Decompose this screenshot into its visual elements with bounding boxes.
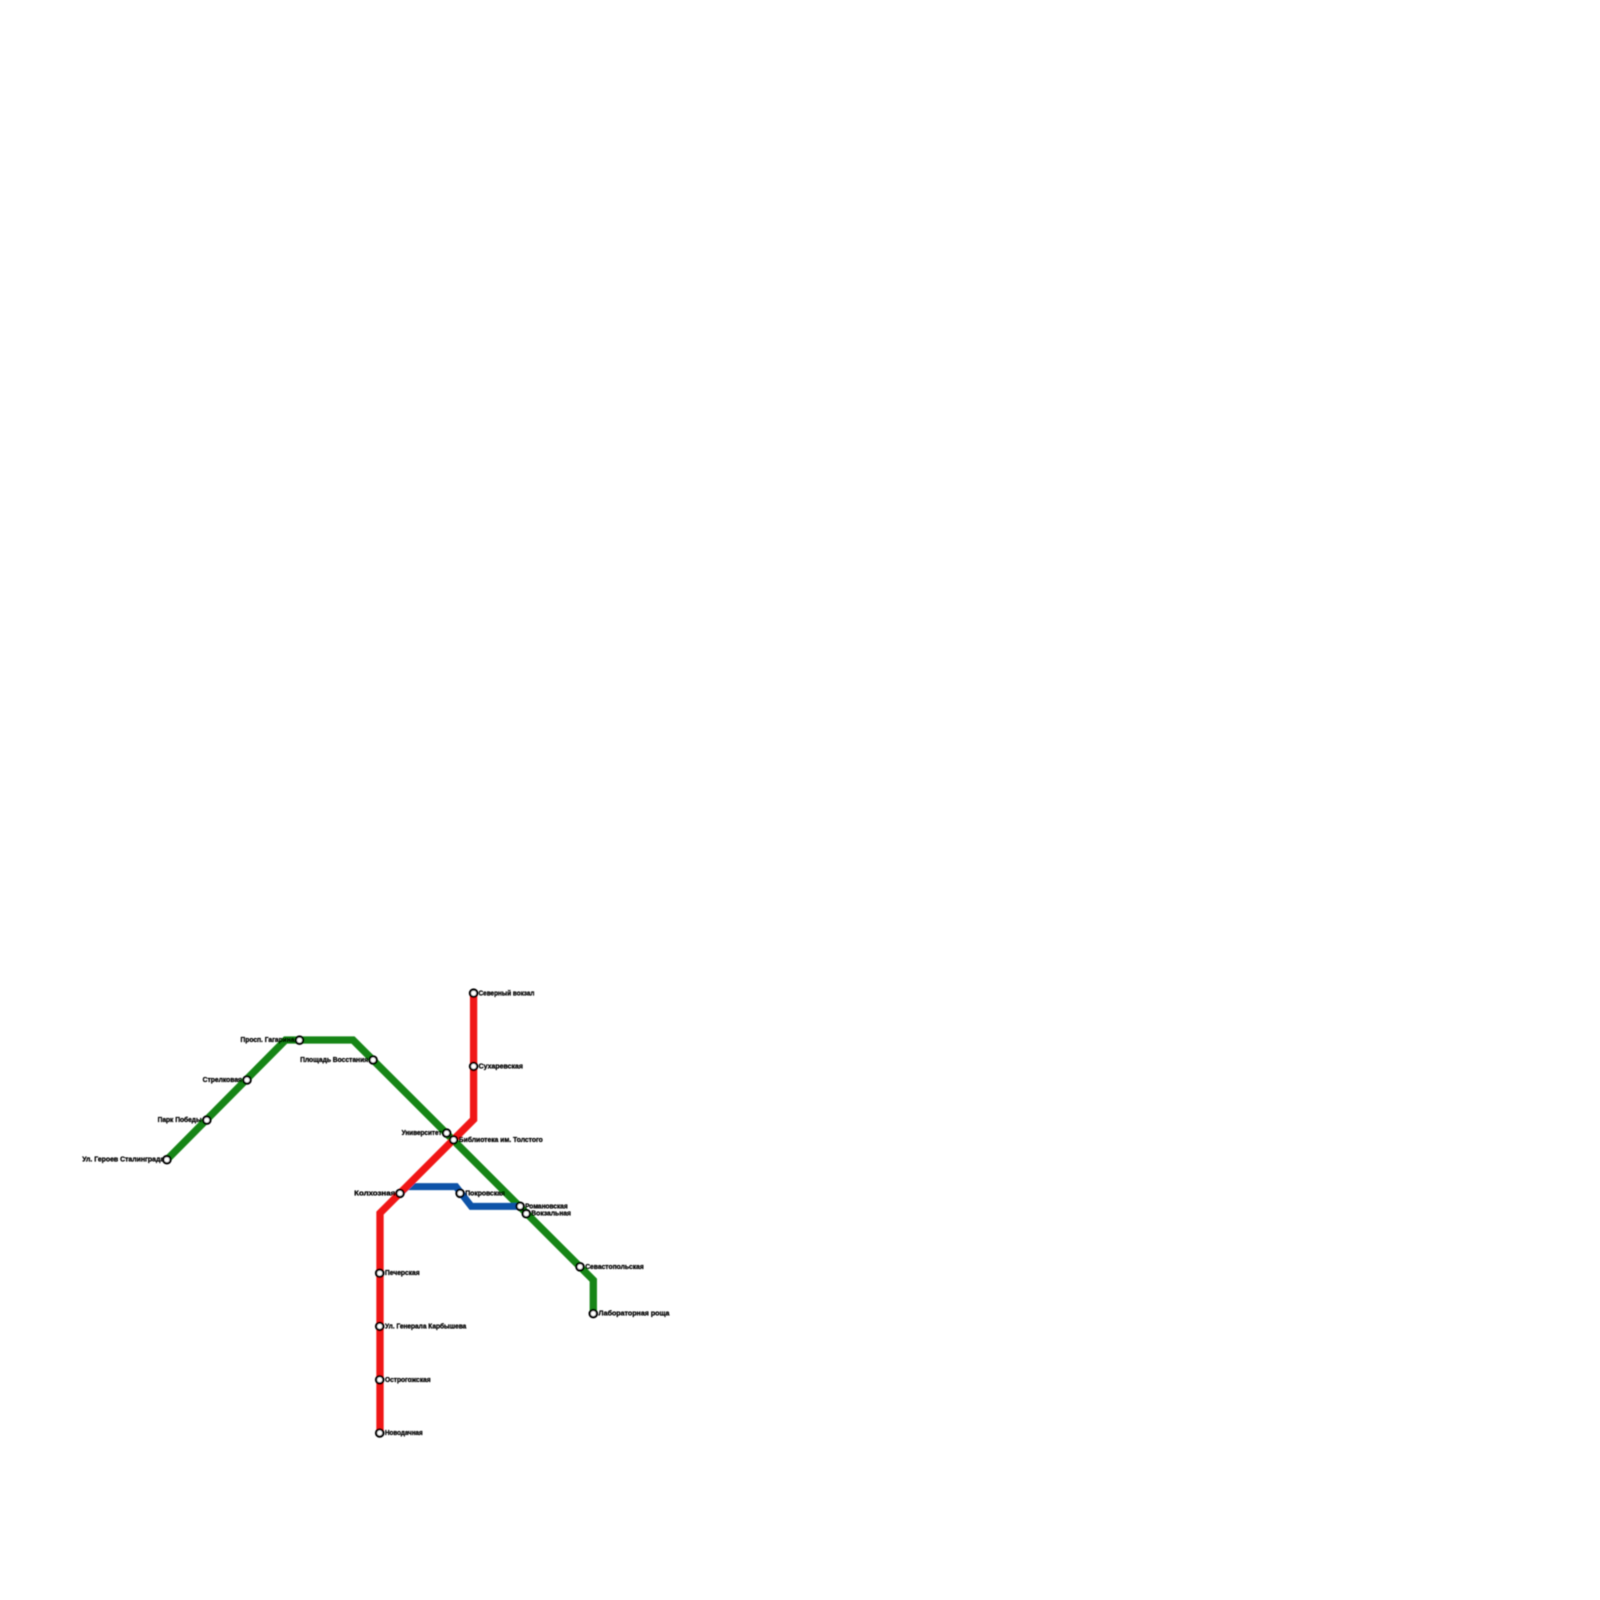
station dot: Ул. Генерала Карбышева (red line) bbox=[376, 1323, 383, 1330]
station dot: Печерская (red line) bbox=[376, 1270, 383, 1277]
svg-text:Сухаревская: Сухаревская bbox=[479, 1061, 523, 1070]
svg-text:Ул. Генерала Карбышева: Ул. Генерала Карбышева bbox=[385, 1321, 467, 1330]
station dot: Лабораторная роща (green line terminus) bbox=[590, 1310, 597, 1317]
svg-text:Библиотека им. Толстого: Библиотека им. Толстого bbox=[459, 1135, 544, 1144]
svg-text:Площадь Восстания: Площадь Восстания bbox=[300, 1055, 368, 1064]
blue metro line 2: Колхозная - Романовская bbox=[400, 1187, 520, 1207]
svg-text:Просп. Гагарина: Просп. Гагарина bbox=[241, 1035, 296, 1044]
station dot: Севастопольская (green line) bbox=[576, 1263, 583, 1270]
station dot: Сухаревская (red line) bbox=[470, 1063, 477, 1070]
station dot: Вокзальная (green line, transfer) bbox=[523, 1210, 530, 1217]
svg-text:Колхозная: Колхозная bbox=[354, 1188, 395, 1197]
svg-text:Северный вокзал: Северный вокзал bbox=[479, 989, 535, 998]
station dot: Острогожская (red line) bbox=[376, 1376, 383, 1383]
svg-text:Вокзальная: Вокзальная bbox=[531, 1209, 571, 1218]
svg-text:Покровская: Покровская bbox=[465, 1188, 505, 1197]
svg-text:Лабораторная роща: Лабораторная роща bbox=[599, 1309, 671, 1318]
station dot: Стрелковая (green line) bbox=[243, 1076, 250, 1083]
green metro line 3: Ул. Героев Сталинграда - Лабораторная роща bbox=[167, 1040, 593, 1314]
red metro line 1: Северный вокзал - Новодачная bbox=[380, 993, 474, 1433]
svg-text:Севастопольская: Севастопольская bbox=[585, 1262, 644, 1271]
station dot: Колхозная (red/blue transfer) bbox=[396, 1190, 403, 1197]
station dot: Ул. Героев Сталинграда (green line terminus) bbox=[163, 1156, 170, 1163]
svg-text:Стрелковая: Стрелковая bbox=[203, 1075, 242, 1084]
station dot: Университет (green line, transfer) bbox=[443, 1129, 450, 1136]
svg-text:Университет: Университет bbox=[402, 1128, 442, 1137]
svg-text:Парк Победы: Парк Победы bbox=[158, 1115, 202, 1124]
station dot: Парк Победы (green line) bbox=[203, 1116, 210, 1123]
svg-text:Ул. Героев Сталинграда: Ул. Героев Сталинграда bbox=[82, 1155, 165, 1164]
station dot: Покровская (blue line) bbox=[456, 1190, 463, 1197]
station dot: Романовская (blue line terminus, transfer) bbox=[516, 1203, 523, 1210]
svg-text:Новодачная: Новодачная bbox=[385, 1428, 423, 1437]
station dot: Новодачная (red line terminus) bbox=[376, 1429, 383, 1436]
station dot: Просп. Гагарина (green line) bbox=[296, 1037, 303, 1044]
station dot: Библиотека им. Толстого (red line, transfer) bbox=[450, 1136, 457, 1143]
svg-text:Острогожская: Острогожская bbox=[385, 1375, 431, 1384]
station dot: Площадь Восстания (green line) bbox=[369, 1056, 376, 1063]
station dot: Северный вокзал (red line terminus) bbox=[470, 990, 477, 997]
svg-text:Печерская: Печерская bbox=[385, 1268, 420, 1277]
